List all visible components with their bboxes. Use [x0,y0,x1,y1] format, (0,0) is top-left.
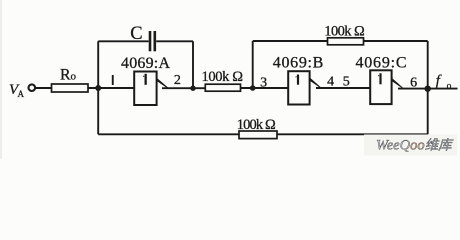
svg-text:100k Ω: 100k Ω [237,117,276,133]
svg-text:o: o [71,71,77,83]
svg-text:R: R [60,67,71,84]
svg-text:A: A [18,89,25,99]
svg-text:3: 3 [260,76,267,91]
svg-text:5: 5 [343,75,350,90]
svg-text:6: 6 [410,76,417,91]
svg-text:4: 4 [327,75,334,90]
svg-text:WeeQoo维库: WeeQoo维库 [376,138,454,154]
svg-text:100k Ω: 100k Ω [202,69,244,85]
svg-text:o: o [447,81,452,91]
svg-text:4069:A: 4069:A [121,55,170,72]
svg-text:C: C [130,24,142,44]
svg-text:4069:C: 4069:C [356,55,407,72]
svg-text:100k Ω: 100k Ω [324,23,365,39]
svg-text:4069:B: 4069:B [273,55,324,72]
svg-text:2: 2 [174,73,181,88]
